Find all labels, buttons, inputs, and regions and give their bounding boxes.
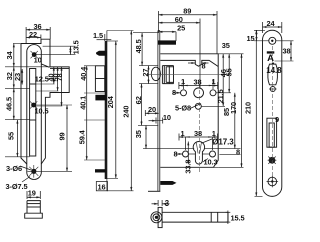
- svg-text:46.5: 46.5: [5, 97, 14, 111]
- svg-text:20: 20: [148, 105, 156, 114]
- svg-text:38: 38: [283, 46, 291, 55]
- svg-text:19: 19: [28, 189, 36, 198]
- svg-text:23: 23: [13, 73, 22, 81]
- svg-text:210: 210: [243, 102, 252, 114]
- svg-text:34: 34: [5, 51, 14, 60]
- svg-text:40.4: 40.4: [79, 66, 88, 81]
- svg-text:60: 60: [175, 15, 183, 24]
- svg-text:240: 240: [121, 106, 130, 118]
- svg-text:99: 99: [57, 132, 66, 140]
- svg-text:59.4: 59.4: [78, 129, 87, 144]
- svg-text:A: A: [267, 53, 274, 64]
- svg-text:55: 55: [225, 68, 234, 76]
- svg-text:3: 3: [165, 199, 170, 208]
- svg-text:1.5: 1.5: [93, 31, 103, 40]
- svg-text:35: 35: [222, 41, 230, 50]
- svg-text:8: 8: [174, 150, 178, 159]
- svg-text:1: 1: [181, 77, 185, 86]
- svg-text:13.5: 13.5: [71, 40, 80, 54]
- svg-text:55: 55: [7, 132, 16, 140]
- svg-text:15: 15: [247, 34, 255, 43]
- svg-text:1: 1: [181, 129, 185, 138]
- svg-text:38: 38: [194, 129, 202, 138]
- svg-text:10: 10: [34, 56, 42, 65]
- svg-text:62: 62: [134, 96, 143, 104]
- svg-text:170: 170: [229, 102, 238, 114]
- svg-text:33.8: 33.8: [183, 160, 192, 174]
- svg-text:48.5: 48.5: [134, 39, 143, 53]
- svg-text:22: 22: [29, 30, 37, 39]
- svg-text:3-Ø7.5: 3-Ø7.5: [6, 182, 28, 191]
- svg-text:5-Ø8: 5-Ø8: [175, 103, 191, 112]
- svg-text:8: 8: [202, 62, 206, 71]
- svg-text:24: 24: [267, 19, 276, 28]
- svg-text:8: 8: [172, 88, 176, 97]
- svg-text:1: 1: [212, 129, 216, 138]
- svg-text:15.5: 15.5: [231, 213, 245, 222]
- svg-text:40.1: 40.1: [78, 96, 87, 110]
- svg-text:10: 10: [163, 113, 171, 122]
- svg-text:1: 1: [212, 77, 216, 86]
- svg-text:35: 35: [134, 130, 143, 138]
- svg-text:8: 8: [236, 147, 240, 156]
- svg-text:10.3: 10.3: [204, 157, 218, 166]
- svg-text:89: 89: [183, 6, 191, 15]
- svg-text:Ø17.3: Ø17.3: [212, 138, 234, 147]
- svg-text:3-Ø6: 3-Ø6: [6, 164, 22, 173]
- svg-text:14.8: 14.8: [266, 66, 282, 75]
- svg-text:9: 9: [275, 115, 279, 124]
- svg-text:78: 78: [55, 73, 64, 81]
- svg-text:16: 16: [98, 183, 106, 192]
- svg-text:25: 25: [177, 24, 185, 33]
- svg-text:21.5: 21.5: [216, 89, 225, 103]
- svg-text:204: 204: [106, 95, 115, 108]
- svg-text:38: 38: [194, 78, 202, 87]
- svg-text:10.5: 10.5: [35, 107, 49, 116]
- svg-text:27: 27: [141, 69, 150, 77]
